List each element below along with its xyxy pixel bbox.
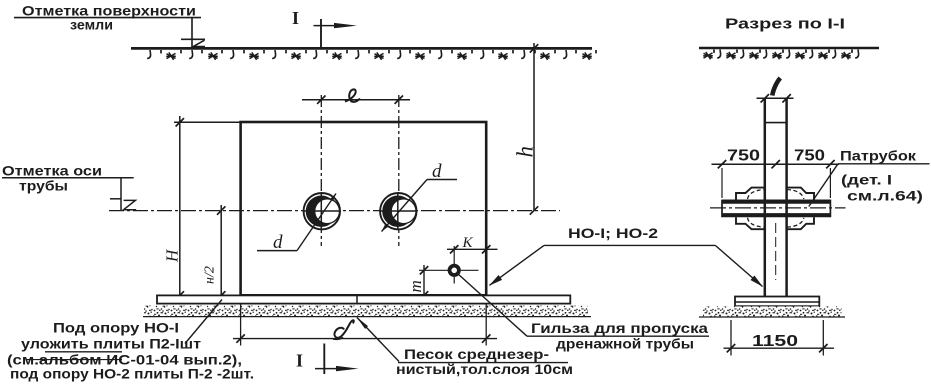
label: script letter z (333, 320, 354, 339)
column (section view): edges (765, 98, 787, 296)
label: pipe axis elevation note "Otmetka osi truby" (2, 163, 134, 194)
svg-text:Патрубок: Патрубок (840, 148, 917, 164)
dimension 750+750: line with ticks (712, 160, 840, 168)
leader arrow to front support edge (489, 245, 544, 285)
sand bedding (section view) (699, 306, 845, 317)
hidden lines: dashed arcs of coupling (748, 190, 804, 228)
earth hatching under ground line (front view) (147, 50, 596, 60)
drainage sleeve: vertical centerline (453, 246, 455, 284)
extension lines for 750 dimension (722, 168, 830, 198)
note: drainage sleeve "Gilza dlya propuska" (527, 320, 709, 352)
svg-text:К: К (462, 235, 474, 251)
pipe coupling flange top-left (736, 188, 765, 200)
svg-text:земли: земли (70, 17, 113, 33)
dimension H/2: vertical line with ticks (217, 205, 225, 301)
support body outline (front view rectangle) (241, 122, 487, 295)
svg-text:1150: 1150 (752, 333, 798, 350)
centerline: right pipe vertical axis (398, 95, 400, 246)
dimension l: line with ticks (302, 96, 410, 104)
svg-text:750: 750 (727, 148, 760, 165)
section mark I (bottom): cut line and arrow (315, 344, 359, 375)
dimension m: extension line through sleeve (419, 269, 479, 271)
dimension K: line with ticks (447, 245, 498, 253)
note: Patrubok (det. I sm.l.64) (838, 148, 930, 204)
svg-text:m: m (406, 280, 425, 292)
leader: from patrubok note to pipe (809, 164, 838, 207)
dimension Z: line with ticks (233, 334, 497, 342)
leader: from sleeve note to sleeve circle (458, 274, 528, 337)
leader: from plates note to slab (185, 300, 222, 344)
leader: from sand note into bedding (thick arrow) (356, 317, 399, 362)
dimension h: vertical line ground-to-axis with ticks (530, 43, 538, 215)
label: script letter v (772, 78, 780, 96)
svg-text:под опору НО-2 плиты П-2 -2шт.: под опору НО-2 плиты П-2 -2шт. (10, 366, 254, 382)
earth hatching under ground line (section view) (703, 50, 858, 60)
label: script letter l (ell) (345, 89, 360, 102)
svg-text:НО-I; НО-2: НО-I; НО-2 (568, 225, 658, 241)
svg-text:750: 750 (794, 148, 825, 165)
ground surface line (front view) (131, 47, 592, 50)
leader arrow to section column edge (715, 245, 763, 287)
svg-text:Песок среднезер-: Песок среднезер- (404, 346, 549, 362)
svg-text:дренажной трубы: дренажной трубы (556, 336, 694, 352)
pipe hole (right): outer circle with sleeve crescent (379, 193, 417, 231)
dimension 1150: line with ticks (724, 344, 835, 352)
dimension v (column width): line with ticks (757, 94, 794, 102)
ground surface line (section view) (699, 47, 879, 50)
svg-text:уложить плиты П2-Iшт: уложить плиты П2-Iшт (21, 336, 201, 352)
pipe coupling flange bottom-right (787, 217, 814, 229)
symbol: ground surface level mark (181, 39, 205, 46)
pipe assembly (patrubok) horizontal pipe (722, 200, 830, 218)
label: surface elevation note "Otmetka poverkhnosti zemli" (14, 3, 201, 33)
pipe hole (left): outer circle with sleeve crescent (303, 193, 341, 231)
label d (left) with leader (257, 194, 336, 254)
svg-text:I: I (292, 8, 299, 28)
dimension H: extension line at top of support (174, 121, 240, 123)
svg-text:Отметка оси: Отметка оси (2, 163, 102, 179)
svg-text:трубы: трубы (19, 178, 68, 194)
centerline: left pipe vertical axis (320, 95, 322, 246)
svg-text:H: H (163, 248, 182, 263)
note: sand layer "Pesok srednezernistyj" (396, 346, 573, 377)
svg-text:Под опору НО-I: Под опору НО-I (53, 320, 179, 336)
svg-text:н/2: н/2 (203, 266, 218, 284)
pipe coupling flange top-right (787, 188, 814, 200)
foundation slab (front view) (157, 295, 570, 303)
centerline: pipe axis (section view) (710, 207, 846, 209)
dimension H: vertical line with ticks (176, 116, 184, 301)
svg-text:см.л.64): см.л.64) (847, 188, 923, 204)
dimension Z: extension lines (241, 304, 487, 346)
note: plates under supports (4 lines) (7, 320, 254, 382)
label d (right) with leader (382, 161, 458, 232)
centerline: pipe horizontal axis (109, 210, 560, 212)
column centerline (below pipe) (775, 223, 777, 280)
dimension 1150: extension lines (731, 320, 823, 356)
pipe coupling flange bottom-left (736, 217, 765, 229)
section mark I (top): cut line and arrow (314, 19, 358, 48)
drainage sleeve: small circle (450, 266, 459, 275)
leader: drop line from surface note to ground level mark (191, 18, 193, 48)
svg-text:нистый,тол.слоя 10см: нистый,тол.слоя 10см (396, 361, 573, 377)
sand bedding layer (front view) (143, 306, 591, 317)
svg-text:(дет. I: (дет. I (841, 172, 892, 188)
svg-text:Разрез по I-I: Разрез по I-I (725, 16, 845, 33)
base plate (section view) (735, 297, 819, 307)
leader: HO labels horizontal line (544, 244, 715, 246)
dimension m: vertical line with ticks (420, 265, 428, 300)
svg-text:I: I (296, 351, 303, 371)
svg-text:h: h (513, 146, 538, 158)
svg-text:Гильза для пропуска: Гильза для пропуска (531, 320, 708, 336)
symbol: pipe axis level mark (110, 178, 136, 211)
